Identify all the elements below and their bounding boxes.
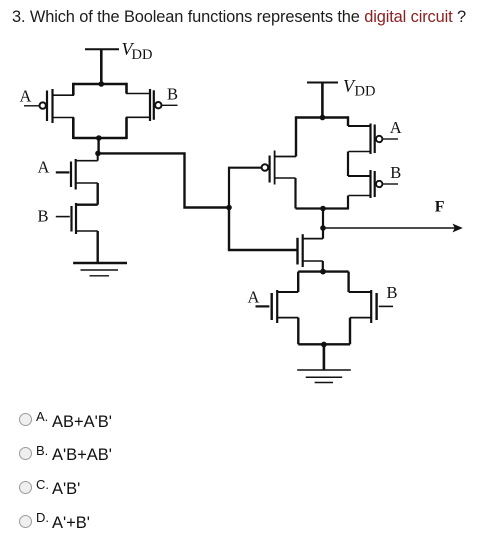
svg-text:F: F (435, 199, 445, 216)
svg-text:B: B (387, 283, 398, 302)
svg-text:A: A (38, 157, 50, 176)
svg-text:B: B (38, 207, 49, 226)
svg-text:B: B (390, 163, 401, 182)
svg-text:B: B (167, 85, 178, 104)
svg-text:DD: DD (132, 47, 153, 63)
svg-text:A: A (390, 118, 402, 137)
svg-text:A: A (20, 86, 32, 105)
svg-text:A: A (248, 288, 260, 307)
svg-text:DD: DD (355, 84, 376, 100)
